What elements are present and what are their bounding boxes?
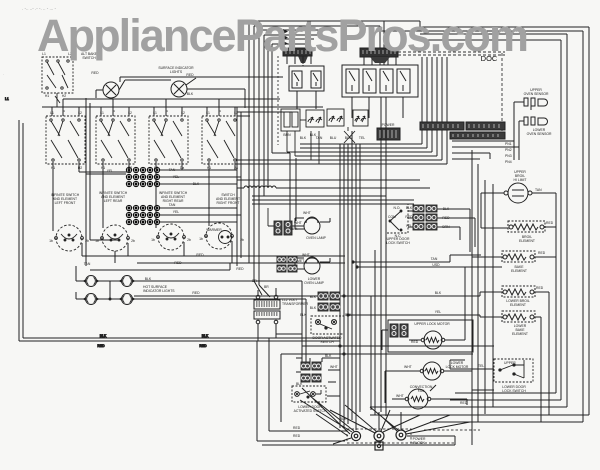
hot surface lights label <box>143 277 175 293</box>
power block label <box>413 437 426 445</box>
burner element E4 warmer <box>199 223 244 249</box>
upper lock motor <box>382 267 473 352</box>
svg-text:L1: L1 <box>153 111 157 115</box>
svg-text:1b: 1b <box>199 237 203 241</box>
DOC bottom terminal strip T2 <box>420 122 505 139</box>
lower bake element resistor <box>480 311 541 322</box>
wire element horizontal feeds <box>344 255 503 317</box>
DOC dashed border <box>278 53 502 145</box>
hot surface indicator light L4 <box>119 294 136 305</box>
hot surface indicator light L3 <box>83 294 100 305</box>
svg-text:TAN: TAN <box>169 203 176 207</box>
svg-text:ELEMENT: ELEMENT <box>512 332 528 336</box>
svg-text:BLK: BLK <box>300 136 307 140</box>
infinite switch S1 left front <box>46 116 85 164</box>
connector pairs mid <box>413 205 437 230</box>
svg-text:RED: RED <box>174 261 182 265</box>
svg-text:BLK: BLK <box>291 227 298 231</box>
svg-text:ELEMENT: ELEMENT <box>510 303 526 307</box>
svg-text:WHT: WHT <box>330 365 338 369</box>
svg-text:USD: USD <box>432 263 440 267</box>
svg-text:AppliancePartsPros.com: AppliancePartsPros.com <box>37 10 529 61</box>
svg-text:TAN: TAN <box>316 136 323 140</box>
svg-text:BR: BR <box>264 285 269 289</box>
infinite switch captions <box>51 191 240 205</box>
connector pair boxes center <box>318 292 340 311</box>
upper door lock switch label <box>386 237 410 245</box>
svg-text:H2: H2 <box>78 166 82 170</box>
indicator light I2 <box>171 78 245 108</box>
svg-text:RED: RED <box>546 221 554 225</box>
svg-text:YEL: YEL <box>173 210 180 214</box>
transformer label <box>282 298 309 306</box>
lower door actuated switch <box>292 386 326 402</box>
wire yel tan runs <box>86 170 241 240</box>
svg-text:OVEN LAMP: OVEN LAMP <box>306 236 327 240</box>
burner element E1 <box>49 225 89 251</box>
wire bottom-left BLK bus <box>19 340 340 342</box>
lower oven sensor <box>514 102 548 160</box>
wire PN runs <box>452 141 519 159</box>
burner element E2 <box>95 225 135 251</box>
svg-text:OVEN LAMP: OVEN LAMP <box>304 281 325 285</box>
hot surface indicator light L2 <box>119 276 136 287</box>
svg-text:1b: 1b <box>151 238 155 242</box>
wire left border pair <box>19 120 23 341</box>
door actuated switch label <box>300 313 352 344</box>
svg-text:LOCK SWITCH: LOCK SWITCH <box>386 241 410 245</box>
wire bottom labels <box>293 401 468 438</box>
bake element resistor <box>472 251 556 262</box>
power block terminal 3 <box>396 430 406 440</box>
svg-text:BLK: BLK <box>145 277 152 281</box>
wire mid horizontal runs <box>237 144 447 204</box>
svg-text:BLK: BLK <box>202 334 209 338</box>
lower oven lamp <box>295 257 330 274</box>
connector pair boxes lower center <box>301 362 321 382</box>
svg-text:LEFT REAR: LEFT REAR <box>104 199 123 203</box>
switch terminal labels <box>50 110 238 170</box>
power block band <box>347 429 480 443</box>
upper lock motor label <box>411 322 450 344</box>
svg-text:BLK: BLK <box>296 382 303 386</box>
hot surface indicator light L1 <box>83 276 100 287</box>
wire bottom right nested returns <box>262 346 589 445</box>
svg-text:TRANSFORMER: TRANSFORMER <box>282 302 309 306</box>
upper broil hi-limit <box>481 183 556 228</box>
svg-text:RED: RED <box>293 426 301 430</box>
lower lock motor <box>385 362 494 403</box>
svg-text:BLK: BLK <box>345 313 352 317</box>
svg-text:2b: 2b <box>85 239 89 243</box>
svg-text:LOCK SWITCH: LOCK SWITCH <box>502 389 526 393</box>
svg-text:L2: L2 <box>128 111 132 115</box>
svg-text:L1: L1 <box>100 111 104 115</box>
svg-text:1b: 1b <box>49 239 53 243</box>
svg-text:2b: 2b <box>131 239 135 243</box>
svg-text:RED: RED <box>97 344 105 348</box>
DOC edge connector hatch row <box>398 52 505 55</box>
svg-text:N.O.: N.O. <box>394 206 401 210</box>
svg-text:L1: L1 <box>206 111 210 115</box>
DOC connector strip P1 <box>283 48 312 64</box>
wire switch to burner drops <box>53 162 237 231</box>
svg-text:BLK: BLK <box>340 417 347 421</box>
svg-text:YEL: YEL <box>107 169 114 173</box>
svg-text:LEFT FRONT: LEFT FRONT <box>55 201 76 205</box>
door actuated switch <box>311 316 344 334</box>
connector grid B <box>126 205 159 224</box>
svg-text:L2: L2 <box>78 111 82 115</box>
DOC bottom terminal strip T1 <box>377 123 400 140</box>
relay module dashed <box>386 204 408 238</box>
svg-text:RED: RED <box>460 401 468 405</box>
svg-text:PN2: PN2 <box>505 148 512 152</box>
connector pairs right of transformer <box>277 256 297 272</box>
svg-text:TAN: TAN <box>84 262 91 266</box>
upper oven lamp <box>295 217 330 234</box>
upper oven sensor <box>514 98 548 110</box>
svg-text:BLK: BLK <box>310 295 317 299</box>
DOC relay box K1 <box>289 56 324 109</box>
svg-text:L1: L1 <box>50 111 54 115</box>
svg-text:YEL: YEL <box>173 175 180 179</box>
svg-text:RED: RED <box>411 340 419 344</box>
svg-text:UPPER: UPPER <box>504 361 516 365</box>
svg-text:BLOCK: BLOCK <box>413 441 425 445</box>
svg-text:RIGHT FRONT: RIGHT FRONT <box>216 201 239 205</box>
surface indicator lights label <box>91 66 194 96</box>
connector box upper mid <box>281 109 319 164</box>
svg-text:LIGHTS: LIGHTS <box>170 70 183 74</box>
svg-text:H1: H1 <box>45 94 49 98</box>
lower door lock switch label <box>478 361 526 393</box>
svg-text:RED: RED <box>199 344 207 348</box>
svg-text:MET: MET <box>297 259 304 263</box>
power block terminal 2 <box>374 431 384 450</box>
svg-text:ELEMENT: ELEMENT <box>511 269 527 273</box>
svg-text:HI LIMIT: HI LIMIT <box>514 178 527 182</box>
lower broil element resistor <box>480 286 549 297</box>
svg-text:TAN: TAN <box>431 257 438 261</box>
wire left inner verticals <box>86 98 90 266</box>
svg-text:SWITCH: SWITCH <box>320 340 334 344</box>
svg-text:2b: 2b <box>187 238 191 242</box>
wire relay module links <box>408 209 475 252</box>
lower oven lamp label <box>291 253 325 285</box>
svg-text:L2: L2 <box>181 111 185 115</box>
infinite switch S2 left rear <box>96 116 135 164</box>
wire lower center links <box>296 281 340 396</box>
wire element feed bundle <box>472 150 493 445</box>
convection fan label <box>396 385 433 398</box>
svg-text:BLK: BLK <box>435 291 442 295</box>
svg-text:RED: RED <box>536 286 544 290</box>
wire bottom-left RED bus <box>23 337 340 339</box>
broil element resistor <box>508 221 553 232</box>
svg-text:WHT: WHT <box>302 253 310 257</box>
wire lower-left nested corners <box>257 324 347 441</box>
connector pair upper lamp <box>268 208 304 235</box>
svg-text:H2: H2 <box>62 94 66 98</box>
lower door lock switch <box>450 359 533 382</box>
DOC connector strip P2 <box>360 48 398 65</box>
svg-text:RED: RED <box>186 73 194 77</box>
wire burner collectors <box>82 241 345 296</box>
svg-text:FAN: FAN <box>418 389 425 393</box>
infinite switch S4 right front <box>202 116 241 164</box>
DOC relay box K2 <box>342 65 418 97</box>
wire right border bundle <box>420 27 589 422</box>
power block terminal 1 <box>351 431 360 440</box>
svg-text:TEL: TEL <box>359 136 365 140</box>
svg-text:RED: RED <box>192 291 200 295</box>
svg-text:TAN: TAN <box>169 168 176 172</box>
svg-text:PN3: PN3 <box>505 154 512 158</box>
junction dots <box>338 260 358 355</box>
wire DOC right verticals <box>422 57 447 164</box>
svg-text:BLK: BLK <box>345 136 352 140</box>
svg-text:RED: RED <box>196 253 204 257</box>
wire DOC box drops <box>96 97 403 266</box>
wire indicator loop top <box>120 77 283 82</box>
svg-text:ACTIVATED SWITCH: ACTIVATED SWITCH <box>294 409 327 413</box>
svg-text:BLK: BLK <box>325 354 332 358</box>
svg-text:COM: COM <box>388 215 396 219</box>
12 volt transformer <box>254 295 280 324</box>
svg-text:.: . <box>3 71 4 76</box>
svg-text:BR: BR <box>252 279 257 283</box>
svg-text:BLK: BLK <box>193 182 200 186</box>
alt bake switch <box>42 57 73 107</box>
wire terminal fan-out <box>300 388 470 444</box>
svg-text:WHT: WHT <box>404 365 412 369</box>
svg-text:WHT: WHT <box>396 394 404 398</box>
svg-text:ELEMENT: ELEMENT <box>519 239 535 243</box>
svg-text:OVEN SENSOR: OVEN SENSOR <box>527 132 552 136</box>
svg-text:RED: RED <box>91 71 99 75</box>
lower door switch label <box>294 382 327 413</box>
infinite switch S3 <box>149 116 188 164</box>
svg-text:LOCK MOTOR: LOCK MOTOR <box>446 365 469 369</box>
svg-text:BRN: BRN <box>283 133 291 137</box>
svg-text:WHT: WHT <box>303 211 311 215</box>
svg-text:PN4: PN4 <box>505 160 512 164</box>
svg-text:BLU: BLU <box>330 136 337 140</box>
svg-text:YEL: YEL <box>435 310 442 314</box>
svg-text:OVEN SENSOR: OVEN SENSOR <box>524 92 549 96</box>
wire hot surface connections <box>76 266 306 300</box>
oven lamp label <box>291 211 327 240</box>
door plunger switch row <box>300 109 368 143</box>
svg-text:BLK: BLK <box>187 92 194 96</box>
wire nested DOC feed corners <box>249 21 386 297</box>
svg-text:RED: RED <box>236 267 244 271</box>
wire arrow terminals <box>283 29 288 46</box>
svg-text:UPPER LOCK MOTOR: UPPER LOCK MOTOR <box>414 322 450 326</box>
svg-text:WARMER: WARMER <box>206 228 222 232</box>
indicator light I1 <box>96 80 171 98</box>
wire center bundle verticals <box>340 97 386 428</box>
svg-text:BLK: BLK <box>100 334 107 338</box>
convection fan <box>392 385 467 409</box>
svg-text:BLK: BLK <box>310 306 317 310</box>
svg-text:RED: RED <box>293 434 301 438</box>
svg-text:RED: RED <box>538 251 546 255</box>
svg-text:INDICATOR LIGHTS: INDICATOR LIGHTS <box>143 289 175 293</box>
svg-text:TEL: TEL <box>478 364 484 368</box>
wire top loop into DOC <box>380 21 589 65</box>
svg-text:PN1: PN1 <box>505 142 512 146</box>
wire surface bus upper <box>42 99 323 107</box>
svg-text:POWER: POWER <box>382 123 395 127</box>
lower lock motor label <box>404 361 469 369</box>
svg-text:BLK: BLK <box>406 206 413 210</box>
svg-text:L1: L1 <box>5 97 9 101</box>
burner element E3 <box>151 224 191 250</box>
connector grid A <box>126 167 159 186</box>
svg-text:TAN: TAN <box>535 188 542 192</box>
wire transformer leads <box>258 288 302 334</box>
svg-text:1b: 1b <box>95 239 99 243</box>
